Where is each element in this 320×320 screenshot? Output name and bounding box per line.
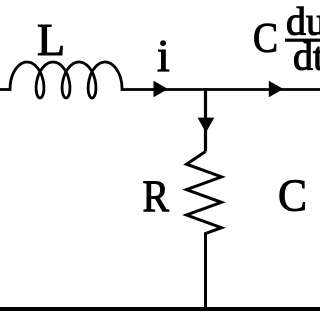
wire junction to branch	[204, 88, 207, 152]
ground rail	[0, 307, 320, 311]
svg-text:dt: dt	[293, 34, 320, 79]
svg-text:R: R	[143, 171, 170, 222]
svg-text:C: C	[253, 16, 278, 62]
arrow to capacitor branch	[269, 81, 284, 97]
arrow down branch	[198, 118, 215, 133]
fraction bar	[285, 39, 320, 42]
svg-text:L: L	[37, 14, 65, 65]
svg-text:i: i	[157, 30, 170, 81]
resistor R1 zigzag	[187, 152, 222, 310]
arrow current i	[154, 81, 169, 97]
inductor L1 coil and top wire	[0, 62, 320, 98]
svg-text:C: C	[278, 170, 307, 221]
